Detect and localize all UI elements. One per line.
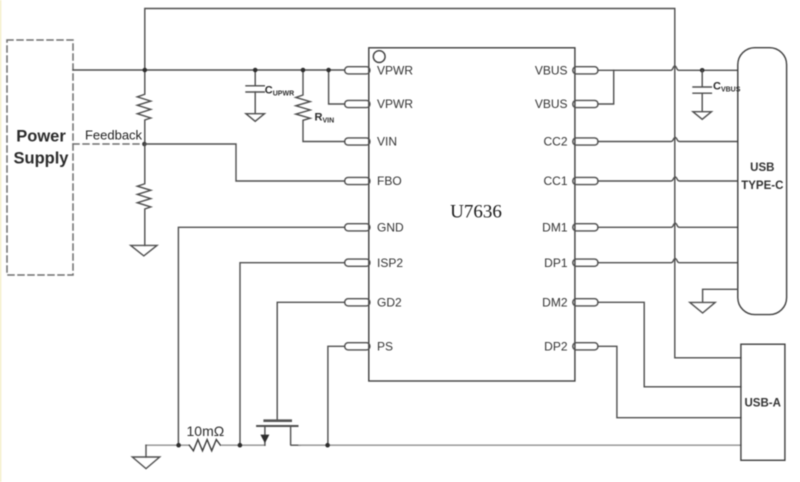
resistor R_sense 10mOhm	[189, 440, 220, 451]
svg-text:ISP2: ISP2	[377, 256, 403, 270]
IC U7636 body	[369, 48, 575, 381]
wire TYPE-C shield ground	[703, 289, 738, 302]
wire GND pin to bottom rail	[178, 227, 344, 445]
left edge tint	[0, 0, 1, 482]
resistor R_VIN	[296, 70, 345, 142]
wire DM2	[598, 302, 741, 387]
ground (bottom left)	[145, 445, 147, 457]
wire PS	[328, 346, 345, 445]
svg-text:PS: PS	[377, 340, 393, 354]
wire bottom rail left	[146, 444, 189, 446]
wire FBO	[145, 144, 345, 181]
wire GD2 to gate	[277, 302, 345, 419]
svg-text:GND: GND	[377, 221, 404, 235]
svg-text:VBUS: VBUS	[535, 64, 568, 78]
pin VBUS 1 stub	[573, 67, 598, 74]
svg-text:DP1: DP1	[544, 256, 568, 270]
pin ISP2 stub	[345, 259, 370, 266]
svg-text:Feedback: Feedback	[85, 128, 143, 143]
svg-text:VBUS: VBUS	[535, 97, 568, 111]
pin CC2 stub	[573, 138, 598, 145]
capacitor C_VBUS	[701, 70, 703, 86]
transistor Q1 (NMOS)	[265, 419, 291, 422]
svg-text:Supply: Supply	[13, 149, 69, 167]
svg-text:Power: Power	[16, 128, 66, 146]
wire DP2	[598, 346, 741, 417]
pin VPWR 2 stub	[345, 100, 370, 107]
svg-text:TYPE-C: TYPE-C	[741, 180, 783, 192]
svg-text:VPWR: VPWR	[377, 97, 413, 111]
node FB (feedback)	[142, 142, 147, 147]
pin CC1 stub	[573, 177, 598, 184]
wire DP1	[598, 259, 738, 263]
pin VIN stub	[345, 138, 370, 145]
ground (feedback divider)	[131, 245, 157, 256]
pin DP2 stub	[573, 343, 598, 350]
ground (C_VBUS)	[693, 112, 712, 120]
wire bottom rail right to USB-A	[299, 444, 741, 446]
svg-text:USB: USB	[750, 162, 774, 174]
resistor R2 (feedback bottom)	[137, 144, 151, 245]
capacitor C_UPWR	[254, 70, 256, 85]
pin DP1 stub	[573, 259, 598, 266]
svg-text:VIN: VIN	[377, 135, 397, 149]
wire bottom rail mid	[222, 444, 265, 446]
wire VPWR rail	[73, 69, 345, 71]
wire CC2	[598, 137, 738, 141]
pin DM1 stub	[573, 224, 598, 231]
pin PS stub	[345, 343, 370, 350]
USB TYPE-C connector J1	[738, 48, 787, 315]
svg-text:10mΩ: 10mΩ	[187, 423, 225, 439]
svg-text:VPWR: VPWR	[377, 64, 413, 78]
node VPWR2 tap	[326, 68, 331, 73]
wire CC1	[598, 177, 738, 181]
node C_VBUS tap	[700, 68, 705, 73]
ground (C_UPWR)	[246, 114, 265, 122]
svg-text:USB-A: USB-A	[744, 398, 780, 410]
node bottom GND tap	[176, 443, 181, 448]
svg-text:GD2: GD2	[377, 296, 402, 310]
svg-text:DM2: DM2	[542, 296, 568, 310]
svg-text:U7636: U7636	[450, 202, 502, 223]
node bottom PS tap	[325, 443, 330, 448]
pin VPWR 1 stub	[345, 67, 370, 74]
svg-text:DP2: DP2	[544, 340, 568, 354]
svg-text:FBO: FBO	[377, 174, 402, 188]
resistor R1 (feedback top)	[137, 70, 151, 144]
node C_UPWR tap	[253, 68, 258, 73]
pin VBUS 2 stub	[573, 100, 598, 107]
pin DM2 stub	[573, 299, 598, 306]
node rail/top-rail junction	[143, 68, 148, 73]
pin GND stub	[345, 224, 370, 231]
wire VBUS2 link	[598, 70, 614, 104]
wire ISP2	[240, 263, 345, 446]
svg-text:CC1: CC1	[543, 174, 567, 188]
node bottom ISP2 tap	[238, 443, 243, 448]
power supply box PS1	[7, 40, 73, 275]
pin 1 indicator circle	[373, 51, 385, 63]
pin FBO stub	[345, 177, 370, 184]
wire VPWR2 tap	[329, 70, 345, 104]
wire VBUS1 to USB TYPE-C with hop over top rail	[598, 66, 738, 70]
wire DM1	[598, 223, 738, 227]
ground (TYPE-C)	[690, 302, 715, 313]
wire feedback dashed	[73, 143, 142, 145]
pin GD2 stub	[345, 299, 370, 306]
svg-text:DM1: DM1	[542, 221, 568, 235]
USB-A connector J2	[741, 344, 785, 460]
wire top rail to USB-A	[145, 9, 741, 358]
node R_VIN tap	[301, 68, 306, 73]
svg-text:CC2: CC2	[543, 135, 567, 149]
